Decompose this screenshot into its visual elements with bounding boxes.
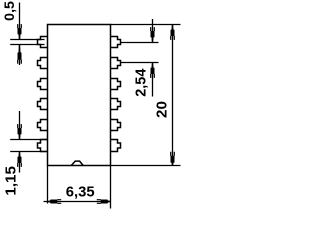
svg-text:6,35: 6,35 xyxy=(66,185,95,201)
svg-text:20: 20 xyxy=(153,101,170,118)
svg-text:2,54: 2,54 xyxy=(133,69,149,97)
svg-text:1,15: 1,15 xyxy=(3,165,20,195)
svg-text:0,5: 0,5 xyxy=(2,1,18,21)
